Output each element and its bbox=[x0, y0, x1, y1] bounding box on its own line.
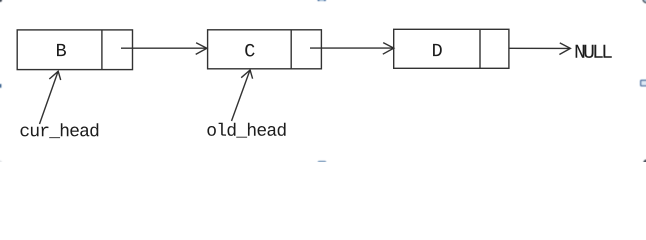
node B pointer-cell divider bbox=[101, 30, 103, 70]
node/net label NULL bbox=[576, 45, 612, 58]
node D box bbox=[394, 29, 509, 68]
node C pointer-cell divider bbox=[290, 30, 292, 69]
wire: cur_head arrow pointing at node B bbox=[40, 71, 61, 124]
selection handle artifact: bottom-left corner (faint) bbox=[0, 160, 2, 164]
node C data label "C" bbox=[245, 44, 254, 57]
label cur_head bbox=[20, 123, 98, 138]
selection handle artifact: right-middle bbox=[641, 80, 646, 85]
selection handle artifact: top-center bbox=[317, 0, 326, 1]
node D pointer-cell divider bbox=[479, 29, 481, 68]
wire: arrow from node C pointer to node D bbox=[310, 43, 394, 55]
selection handle artifact: bottom-right corner bbox=[643, 159, 646, 166]
wire: arrow from node D pointer to NULL bbox=[509, 43, 570, 55]
label old_head bbox=[207, 123, 285, 138]
node B box bbox=[17, 30, 132, 70]
node C box bbox=[208, 30, 322, 69]
node B data label "B" bbox=[57, 44, 66, 56]
selection handle artifact: top-right corner bbox=[643, 0, 646, 3]
selection handle artifact: left-middle bbox=[0, 84, 1, 88]
selection handle artifact: top-left corner bbox=[0, 0, 2, 2]
node D data label "D" bbox=[433, 44, 442, 56]
selection handle artifact: bottom-center bbox=[318, 161, 327, 165]
wire: old_head arrow pointing at node C bbox=[232, 70, 253, 121]
wire: arrow from node B pointer to node C bbox=[121, 43, 207, 55]
